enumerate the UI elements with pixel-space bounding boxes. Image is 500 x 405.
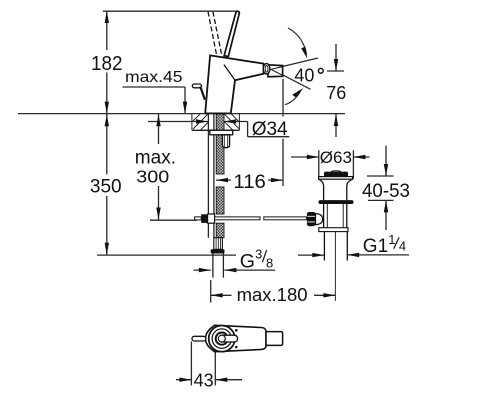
svg-text:max.180: max.180 [237,284,308,305]
svg-text:G: G [240,251,255,273]
svg-text:4: 4 [399,239,406,254]
svg-text:350: 350 [90,176,122,197]
svg-text:300: 300 [136,167,169,187]
svg-text:3: 3 [255,247,262,261]
svg-text:max.: max. [135,147,176,168]
svg-text:40: 40 [294,65,314,85]
svg-text:Ø63: Ø63 [320,148,352,167]
svg-text:Ø34: Ø34 [252,119,288,140]
svg-text:116: 116 [233,171,266,193]
svg-text:G1: G1 [363,236,388,257]
svg-text:43: 43 [194,371,214,391]
svg-text:76: 76 [326,83,346,103]
svg-text:40-53: 40-53 [362,181,410,202]
svg-text:1: 1 [388,232,395,247]
svg-text:182: 182 [91,53,123,75]
svg-text:max.45: max.45 [125,69,183,86]
svg-text:8: 8 [266,256,273,271]
